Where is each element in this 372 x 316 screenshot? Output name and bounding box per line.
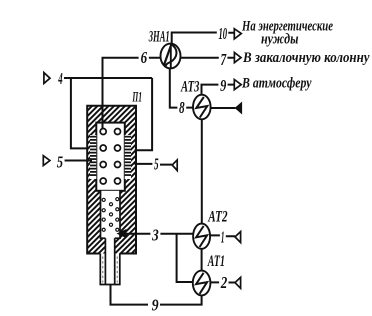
wire AT2 to AT1 [201,249,203,271]
neck wall texture [103,257,117,283]
burner grid right [125,135,131,179]
wire 4 left branch [71,78,89,148]
arrow stream 5 left [43,156,50,166]
svg-text:В атмосферу: В атмосферу [241,76,312,92]
svg-text:6: 6 [141,48,148,67]
arrow stream 10 [234,29,241,39]
quench spray dots [102,198,119,232]
wire stream 6 [103,58,161,129]
svg-text:3: 3 [151,226,159,245]
svg-text:8: 8 [179,98,185,117]
wire 5 left [65,160,92,162]
svg-text:9: 9 [152,295,159,314]
svg-text:7: 7 [221,50,228,69]
coil tube C8 [115,178,121,184]
wire stream 3 [125,233,193,235]
svg-text:нужды: нужды [261,31,299,47]
svg-text:10: 10 [219,24,228,43]
svg-text:В закалочную колонну: В закалочную колонну [242,50,370,66]
wire stream 9 bottom [111,285,202,305]
wire stream 7 [181,57,235,59]
wire stream 1 [210,234,235,237]
svg-text:ЗНА1: ЗНА1 [148,28,170,45]
svg-text:АТ2: АТ2 [207,209,227,226]
coil tube C6 [115,162,121,168]
furnace neck channel [106,238,114,284]
svg-text:АТ1: АТ1 [207,253,225,270]
svg-text:4: 4 [58,69,63,88]
arrow stream 9 [234,80,241,90]
arrow stream 7 [234,53,241,63]
svg-text:П1: П1 [132,90,142,106]
wire ZNA1 to AT3 (stream 8) [170,68,193,107]
arrow stream 4 [44,73,50,84]
wire stream 9 top [202,85,235,95]
drain filled arrow [235,103,241,114]
heat exchanger AT3 [193,95,211,120]
coil tube C4 [115,145,121,151]
wire 4 right branch [135,78,153,150]
wire stream 10 [172,33,234,45]
wire AT3 to AT2 [201,119,203,223]
furnace P1 hatched wall [87,106,136,254]
coil tube C2 [115,129,121,135]
coil tube C7 [100,178,106,184]
wire AT3 right to drain [211,107,236,109]
svg-text:2: 2 [220,273,228,292]
furnace neck outer wall [100,254,120,285]
coil tube C1 [100,129,106,135]
svg-text:5: 5 [57,153,64,172]
furnace inner radiant box [96,123,125,191]
coil tube C3 [100,145,106,151]
heat exchanger AT1 [193,271,211,296]
wire stream 2 [210,281,235,283]
svg-text:9: 9 [220,76,227,95]
burner grid left [90,135,96,179]
heat exchanger ZNA1 [161,44,181,69]
svg-text:АТ3: АТ3 [180,79,199,96]
svg-text:5: 5 [154,154,159,173]
wire 3 branch to AT1 [177,234,193,282]
wire stream 4 horizontal [64,77,152,79]
arrow stream 5 right [172,160,177,171]
svg-text:1: 1 [221,227,225,246]
arrow stream 2 [235,277,241,288]
heat exchanger AT2 [193,224,210,249]
furnace lower quench chamber [101,191,120,238]
wire 5 right [135,163,173,166]
coil tube C5 [100,162,106,168]
arrow stream 1 [235,232,241,243]
arrowhead stream 3 [118,230,126,238]
